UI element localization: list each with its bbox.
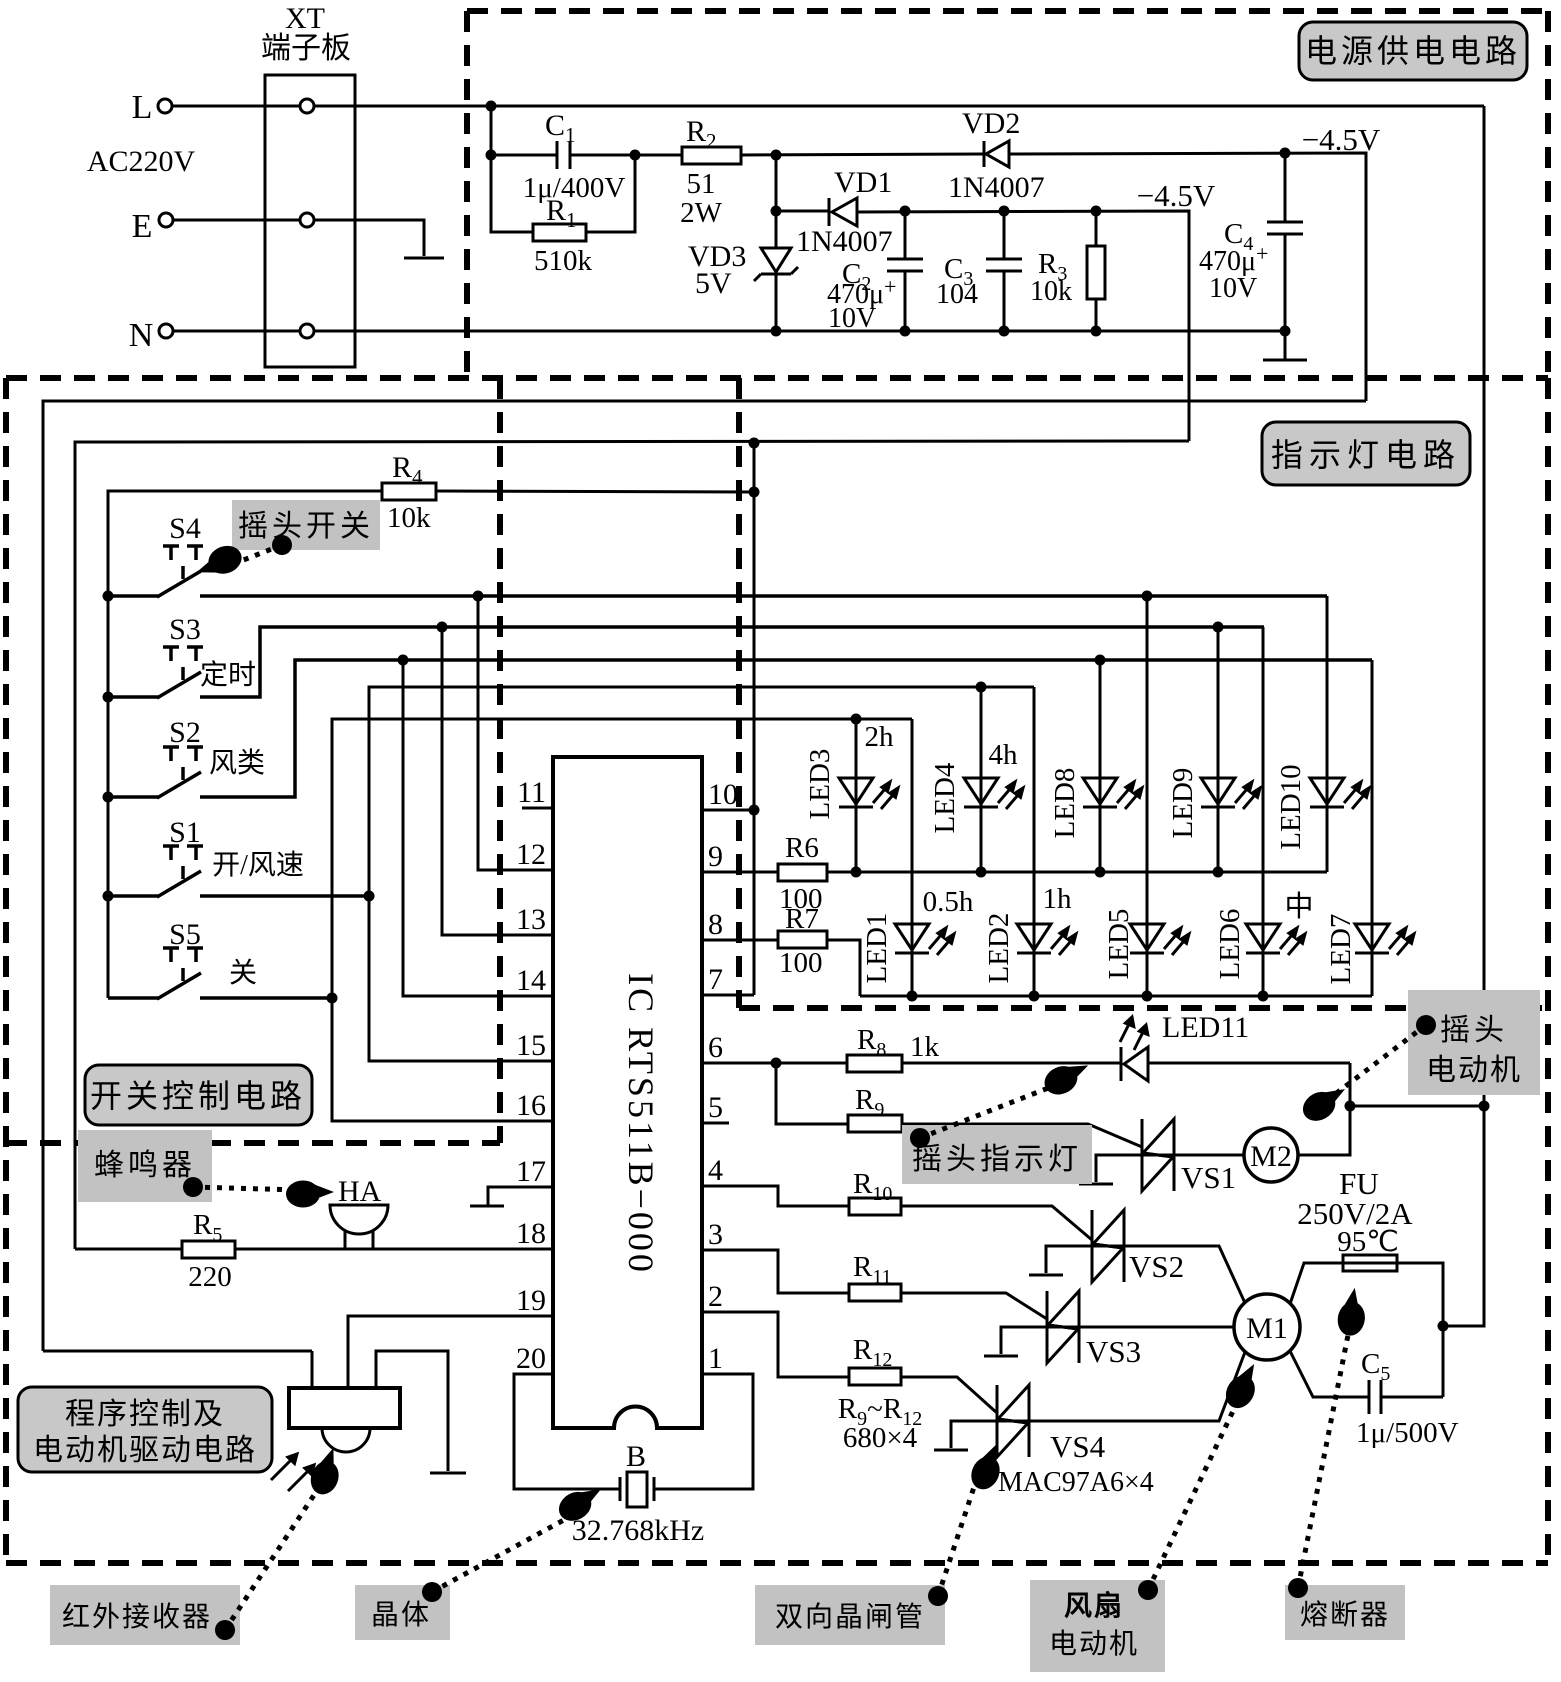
label 晶体 (355, 1585, 450, 1640)
terminal L (158, 99, 172, 113)
hand at FU (1335, 1286, 1370, 1338)
wire LED3 column (855, 719, 858, 872)
leader 熔断器 to FU (1298, 1330, 1349, 1588)
svg-text:电动机: 电动机 (1426, 1054, 1522, 1087)
wire R10 to VS2 (901, 1206, 1092, 1240)
capacitor C4 (1284, 153, 1287, 222)
wire S3 output to bus y627 (108, 695, 158, 699)
svg-text:LED9: LED9 (1167, 768, 1199, 839)
wire VS3 to M1 (1079, 1326, 1234, 1329)
leader dot 风扇电动机 (1138, 1580, 1158, 1600)
wire S4 bus y596 (108, 594, 158, 598)
pin 7 wire (702, 994, 754, 997)
node C2 top junction (900, 206, 911, 217)
terminal board XT (265, 75, 355, 367)
svg-text:32.768kHz: 32.768kHz (572, 1514, 704, 1547)
resistor R1 (533, 224, 586, 241)
svg-text:S4: S4 (169, 512, 201, 545)
node S5/pin16 junction (327, 993, 338, 1004)
svg-text:1μ/400V: 1μ/400V (523, 172, 626, 204)
svg-text:LED10: LED10 (1275, 764, 1307, 849)
wire LED9 column (1217, 627, 1220, 872)
wire -4.5V rail y442 (75, 441, 1189, 1249)
LED2 (1017, 924, 1076, 955)
wire right power rail x1484 (1443, 106, 1484, 1326)
svg-text:AC220V: AC220V (87, 145, 196, 178)
leader 风扇电动机 to M1 (1148, 1390, 1243, 1590)
leader dot 晶体 (422, 1582, 442, 1602)
svg-text:10k: 10k (1030, 276, 1072, 307)
svg-text:摇头指示灯: 摇头指示灯 (912, 1143, 1082, 1176)
svg-text:开关控制电路: 开关控制电路 (90, 1078, 306, 1114)
wire LED11 to M2 loop (1350, 1063, 1484, 1106)
node C2 bottom junction (900, 326, 911, 337)
wire R1 loop (491, 155, 533, 232)
switch S1 (108, 846, 369, 897)
svg-text:LED1: LED1 (861, 913, 893, 984)
node botbus/LED2 junction (1029, 991, 1040, 1002)
pin 15 wire to bus y687 (369, 687, 1034, 1061)
wire VS2 to M1 (1124, 1246, 1245, 1303)
svg-text:10V: 10V (1209, 273, 1257, 304)
resistor R11 (849, 1284, 901, 1301)
pin 10 wire (702, 809, 754, 812)
resistor R5 (182, 1241, 235, 1258)
lower box bottom border (6, 1560, 1548, 1566)
node bus596/LED5 junction (1142, 591, 1153, 602)
svg-text:−4.5V: −4.5V (1302, 122, 1381, 157)
triac VS4 (934, 1385, 1029, 1457)
svg-text:680×4: 680×4 (843, 1422, 918, 1454)
node R6bus/LED4 junction (976, 867, 987, 878)
svg-text:18: 18 (516, 1217, 546, 1250)
svg-text:MAC97A6×4: MAC97A6×4 (998, 1467, 1154, 1498)
node VD3 bottom junction (771, 326, 782, 337)
wire IR supply from left rail (43, 1350, 312, 1353)
svg-text:指示灯电路: 指示灯电路 (1271, 437, 1461, 473)
triac VS1 output to M2 (1174, 1154, 1244, 1157)
node bus687/LED4 junction (976, 682, 987, 693)
pin 11 stub (522, 807, 553, 810)
crystal B (619, 1477, 622, 1501)
LED9 (1201, 778, 1260, 809)
node pin6/R9 junction (771, 1058, 782, 1069)
pin 12 wire to S4 bus (478, 596, 553, 870)
ground bar (IR) (430, 1472, 466, 1475)
node VD1 anode junction (771, 206, 782, 217)
svg-text:端子板: 端子板 (261, 32, 351, 65)
svg-text:13: 13 (516, 903, 546, 936)
svg-text:R6: R6 (785, 832, 819, 864)
LED3 (839, 778, 898, 809)
label 风扇电动机 (1030, 1580, 1165, 1672)
svg-text:LED6: LED6 (1214, 909, 1246, 980)
svg-text:16: 16 (516, 1089, 546, 1122)
svg-text:1k: 1k (910, 1031, 940, 1063)
hand at LED11 (1040, 1055, 1095, 1100)
hand at crystal (554, 1479, 609, 1526)
pin 9 wire (702, 871, 778, 874)
motor M2 (1244, 1128, 1298, 1182)
wire L to C1 branch (490, 106, 493, 155)
ground (E earth bar) (404, 257, 444, 260)
svg-text:S1: S1 (169, 816, 201, 849)
left pin wires (75, 596, 1034, 1489)
svg-text:LED3: LED3 (804, 749, 836, 820)
wire LED2 column (1033, 687, 1036, 996)
leader 摇头电动机 to M2 node (1330, 1025, 1426, 1098)
wire R4 line y491 (108, 491, 382, 998)
terminal E (159, 213, 173, 227)
power supply box left border (464, 11, 470, 378)
svg-text:9: 9 (708, 840, 723, 873)
svg-text:R7: R7 (785, 903, 819, 935)
wire R11 to VS3 (901, 1293, 1047, 1319)
svg-text:熔断器: 熔断器 (1300, 1599, 1390, 1631)
svg-text:VS1: VS1 (1181, 1160, 1236, 1195)
switch S3 (108, 627, 1264, 698)
lower box right border (1545, 378, 1551, 1563)
triac VS2 (1029, 1210, 1124, 1282)
ground below C4 (1284, 331, 1287, 359)
svg-text:程序控制及: 程序控制及 (65, 1398, 225, 1431)
pin 2 wire to R12 (702, 1312, 849, 1377)
wire R6 cathode bus y872 (827, 871, 1327, 874)
svg-text:17: 17 (516, 1155, 546, 1188)
wire M2 right loop (1298, 1106, 1350, 1155)
leader dot 摇头开关 (272, 535, 292, 555)
resistor R7 (778, 931, 827, 948)
power supply box top border (467, 8, 1548, 14)
wire LED8 column (1099, 660, 1102, 872)
svg-text:220: 220 (188, 1261, 232, 1293)
svg-text:2W: 2W (680, 197, 723, 229)
wire supply rail y401 (VD2 side) (43, 401, 1366, 1351)
wire R12 to VS4 (901, 1377, 997, 1413)
svg-text:风扇: 风扇 (1064, 1589, 1124, 1622)
svg-text:LED4: LED4 (929, 762, 961, 833)
node botbus/LED1 junction (907, 991, 918, 1002)
node pin12/S4 junction (473, 591, 484, 602)
svg-text:风类: 风类 (209, 747, 265, 779)
right pin wires (654, 810, 849, 1489)
svg-text:10V: 10V (828, 303, 876, 334)
svg-text:双向晶闸管: 双向晶闸管 (775, 1601, 925, 1633)
wire L line (172, 105, 1484, 108)
node C1 left junction (486, 150, 497, 161)
node R3 top junction (1091, 206, 1102, 217)
capacitor C5 (1368, 1380, 1371, 1414)
svg-text:10: 10 (708, 778, 738, 811)
wire bottom cathode bus y996 (860, 995, 1372, 998)
lower box left border (3, 378, 9, 1563)
svg-text:1N4007: 1N4007 (796, 225, 893, 258)
pin 17 stub with tick (488, 1187, 553, 1205)
diode VD1 (828, 198, 831, 226)
node VD2/C4 junction (1280, 148, 1291, 159)
node rail-S3 junction (103, 692, 114, 703)
svg-text:VD2: VD2 (962, 107, 1020, 140)
svg-text:电动机: 电动机 (1049, 1628, 1139, 1660)
LED4 (964, 778, 1023, 809)
svg-text:510k: 510k (534, 245, 593, 277)
wire C5 right (1381, 1396, 1443, 1399)
resistor R9 (848, 1115, 902, 1132)
pin 16 wire to bus y719 (332, 719, 912, 1121)
wire VD1 to -4.5V corner (857, 211, 1189, 441)
svg-text:4: 4 (708, 1154, 723, 1187)
svg-text:100: 100 (779, 947, 823, 979)
pin 8 wire (702, 939, 778, 942)
pin 1 wire to crystal (654, 1374, 753, 1489)
capacitor C1 (556, 141, 559, 169)
indicator-section inner dashed vertical x739 (736, 378, 742, 1008)
svg-text:VS3: VS3 (1086, 1334, 1141, 1369)
svg-text:3: 3 (708, 1218, 723, 1251)
LED11 diode (1120, 1047, 1123, 1081)
label 摇头开关 (232, 500, 380, 550)
hand at M2 node (1298, 1079, 1353, 1126)
hand at M1 (1220, 1358, 1267, 1413)
label 蜂鸣器 (78, 1130, 212, 1202)
node pin10 junction on x754 (749, 805, 760, 816)
triac VS3 (984, 1291, 1079, 1363)
svg-text:14: 14 (516, 964, 546, 997)
LED8 (1083, 778, 1142, 809)
wire VS4 to M1 (1029, 1352, 1245, 1421)
hand at VS4 (966, 1439, 1011, 1494)
pin 18 wire (buzzer line) (75, 1248, 553, 1251)
node C4 bottom junction (1280, 326, 1291, 337)
wire R9 branch (776, 1063, 848, 1124)
pin 6 wire (702, 1062, 847, 1065)
svg-text:104: 104 (936, 279, 978, 310)
pin 3 wire to R11 (702, 1250, 849, 1293)
svg-text:12: 12 (516, 838, 546, 871)
leader dot 熔断器 (1288, 1578, 1308, 1598)
svg-text:0.5h: 0.5h (923, 886, 974, 918)
svg-text:7: 7 (708, 963, 723, 996)
svg-text:15: 15 (516, 1029, 546, 1062)
node R4 right junction (749, 487, 760, 498)
LED7 (1355, 924, 1414, 955)
switch-section inner dashed vertical x500 (497, 378, 503, 1143)
svg-text:M2: M2 (1250, 1140, 1292, 1173)
switch-section inner dashed bottom y1143 (6, 1140, 500, 1146)
wire VD3 column (775, 155, 778, 331)
label 指示灯电路 (1262, 422, 1470, 485)
svg-text:VD1: VD1 (834, 166, 892, 199)
node fuse/C5/right-rail junction (1438, 1321, 1449, 1332)
svg-text:电动机驱动电路: 电动机驱动电路 (33, 1434, 257, 1467)
leader dot 红外接收器 (215, 1620, 235, 1640)
svg-text:电源供电电路: 电源供电电路 (1305, 33, 1521, 69)
node bus719/LED3 junction (851, 714, 862, 725)
wire pin6 line through R8 and LED11 (847, 1055, 902, 1072)
svg-text:HA: HA (338, 1175, 382, 1208)
node rail-S2 junction (103, 792, 114, 803)
svg-text:51: 51 (687, 168, 716, 200)
label 摇头指示灯 (902, 1125, 1092, 1184)
pin 5 stub (702, 1122, 729, 1125)
leader 摇头指示灯 to LED11 (920, 1085, 1056, 1138)
fuse FU (1343, 1255, 1397, 1271)
hand at S4 (191, 541, 245, 583)
wire S5 output (108, 996, 158, 1000)
svg-text:1N4007: 1N4007 (948, 171, 1045, 204)
IR arrows (271, 1459, 292, 1480)
wire R7 to bottom bus (827, 940, 860, 996)
svg-text:5V: 5V (695, 267, 732, 300)
svg-text:L: L (132, 89, 153, 126)
pin 20 wire to crystal (514, 1374, 620, 1489)
node pin13/S3 junction (437, 622, 448, 633)
svg-text:晶体: 晶体 (371, 1599, 431, 1631)
svg-text:LED8: LED8 (1049, 768, 1081, 839)
svg-text:19: 19 (516, 1284, 546, 1317)
svg-text:开/风速: 开/风速 (212, 850, 304, 881)
svg-text:摇头开关: 摇头开关 (238, 510, 374, 543)
node rail-S4 junction (103, 591, 114, 602)
svg-text:S3: S3 (169, 613, 201, 646)
wire VD1 line (776, 210, 829, 213)
leader 蜂鸣器 to HA (193, 1187, 300, 1190)
wire VD2 to C4 top (1009, 153, 1366, 401)
wire M1 to fuse (1290, 1263, 1343, 1304)
wire LED6 column (1262, 627, 1265, 996)
wire R2 to VD2 (741, 154, 984, 155)
capacitor C2 (904, 211, 907, 259)
label 摇头电动机 (1408, 990, 1540, 1095)
label 电源供电电路 (1299, 22, 1527, 80)
svg-text:LED7: LED7 (1325, 914, 1357, 985)
wire LED7 column (1371, 660, 1374, 996)
svg-text:IC RTS511B−000: IC RTS511B−000 (621, 973, 661, 1275)
resistor R12 (849, 1368, 901, 1385)
wire LED1 column (911, 719, 914, 996)
node L/C1 junction (486, 101, 497, 112)
node M2 loop on right rail (1479, 1101, 1490, 1112)
svg-text:关: 关 (229, 957, 257, 989)
wire fuse to right rail (1397, 1263, 1443, 1397)
node R6bus/LED3 junction (851, 867, 862, 878)
svg-text:LED5: LED5 (1103, 909, 1135, 980)
diode VD2 (983, 141, 986, 167)
leader 红外接收器 to IR (225, 1483, 322, 1630)
node R6bus/LED8 junction (1095, 867, 1106, 878)
IR receiver box (289, 1388, 400, 1428)
node x754 on -4.5V rail (749, 438, 760, 449)
svg-text:1μ/500V: 1μ/500V (1356, 1417, 1459, 1449)
XT pad on N (300, 324, 314, 338)
node S1/pin15 junction (364, 891, 375, 902)
node pin14/S2 junction (398, 655, 409, 666)
leader 摇头开关 to S4 (228, 545, 282, 566)
svg-text:定时: 定时 (200, 659, 256, 691)
node C3 bottom junction (999, 326, 1010, 337)
wire R4 to x754 (436, 491, 754, 492)
svg-text:95℃: 95℃ (1337, 1226, 1399, 1258)
indicator-section inner dashed bottom y1008 (739, 1005, 1548, 1011)
svg-text:10k: 10k (387, 502, 431, 534)
wire R9 to VS1 (902, 1124, 1142, 1147)
svg-text:6: 6 (708, 1031, 723, 1064)
shared horizontal dashed border y378 (6, 375, 1548, 381)
hand at IR dome (306, 1444, 348, 1498)
wire C1/R2 line (491, 154, 557, 157)
svg-text:B: B (626, 1440, 646, 1473)
switch S5 (108, 948, 332, 999)
node botbus/LED6 junction (1258, 991, 1269, 1002)
leader dot 双向晶闸管 (928, 1586, 948, 1606)
buzzer legs (344, 1230, 347, 1249)
svg-text:5: 5 (708, 1091, 723, 1124)
leader 晶体 to crystal (432, 1509, 584, 1592)
node LED11/M2 junction (1345, 1101, 1356, 1112)
resistor R4 (382, 483, 436, 500)
svg-text:中: 中 (1284, 890, 1313, 923)
wire LED10 column (1326, 596, 1329, 872)
wire IR ground route (376, 1351, 448, 1471)
svg-text:红外接收器: 红外接收器 (62, 1601, 212, 1633)
IC U1 body (553, 757, 702, 1428)
wire R1 to C1 right (586, 155, 635, 232)
svg-text:11: 11 (517, 776, 546, 809)
wire N line (173, 330, 1285, 333)
node rail-S1 junction (103, 891, 114, 902)
wire LED5 column (1146, 596, 1149, 996)
svg-text:XT: XT (285, 2, 325, 35)
svg-text:−4.5V: −4.5V (1137, 178, 1216, 213)
resistor R10 (849, 1198, 901, 1215)
svg-text:2: 2 (708, 1280, 723, 1313)
node bus627/LED9 junction (1213, 622, 1224, 633)
svg-text:VS2: VS2 (1129, 1249, 1184, 1284)
LED1 (895, 924, 954, 955)
resistor R3 (1095, 211, 1098, 246)
resistor R2 (682, 147, 741, 164)
resistor R6 (778, 864, 827, 881)
node botbus/LED5 junction (1142, 991, 1153, 1002)
hand at HA (286, 1181, 334, 1208)
wire x754 vertical (R4 / pin10 / pin7 net) (753, 443, 756, 995)
pin 14 wire to S2 bus (403, 660, 553, 996)
wire C1 to R2 (570, 154, 682, 157)
svg-text:S2: S2 (169, 716, 201, 749)
svg-text:N: N (129, 317, 154, 354)
label 开关控制电路 (85, 1065, 312, 1125)
svg-text:LED11: LED11 (1162, 1011, 1249, 1044)
LED5 (1130, 924, 1189, 955)
node R3 bottom junction (1091, 326, 1102, 337)
leader dot 摇头指示灯 (910, 1128, 930, 1148)
terminal N (159, 324, 173, 338)
switch S4 (108, 546, 1327, 597)
leader dot 蜂鸣器 (183, 1177, 203, 1197)
svg-text:VS4: VS4 (1050, 1429, 1106, 1464)
XT pad on L (300, 99, 314, 113)
leader 双向晶闸管 to VS4 (938, 1475, 978, 1596)
svg-text:2h: 2h (865, 721, 895, 753)
XT pad on E (300, 213, 314, 227)
label 程序控制及电动机驱动电路 (18, 1387, 272, 1472)
IR receiver dome (322, 1428, 370, 1452)
node R6bus/LED9 junction (1213, 867, 1224, 878)
zener VD3 (761, 248, 791, 272)
pin 19 wire to IR receiver (348, 1316, 553, 1388)
node C1/R1 right junction (630, 150, 641, 161)
wire S1 output (108, 894, 158, 898)
